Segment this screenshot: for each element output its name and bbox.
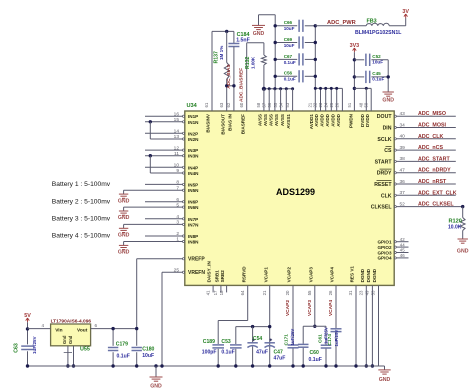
- svg-text:C174: C174: [327, 334, 333, 346]
- svg-text:AVDD: AVDD: [325, 113, 330, 126]
- svg-text:DRDY: DRDY: [377, 171, 392, 177]
- svg-text:GND: GND: [118, 198, 130, 204]
- svg-text:C52: C52: [372, 54, 381, 59]
- svg-text:BIASINV: BIASINV: [206, 113, 211, 133]
- svg-text:IN4P: IN4P: [188, 165, 198, 170]
- svg-text:IN8N: IN8N: [188, 240, 199, 245]
- svg-text:31: 31: [348, 290, 353, 295]
- svg-text:55: 55: [307, 290, 312, 295]
- svg-text:63: 63: [219, 102, 224, 107]
- svg-text:AVDD: AVDD: [330, 113, 335, 126]
- svg-text:10uF: 10uF: [284, 26, 295, 31]
- svg-text:IN5P: IN5P: [188, 182, 198, 187]
- svg-text:FB3: FB3: [367, 19, 377, 25]
- svg-text:IN1P: IN1P: [188, 114, 198, 119]
- svg-text:ADC_PWR: ADC_PWR: [327, 20, 356, 26]
- svg-text:C180: C180: [142, 346, 154, 352]
- svg-text:58: 58: [256, 102, 261, 107]
- svg-text:VREFN: VREFN: [188, 270, 205, 276]
- svg-text:ADC_nDRDY: ADC_nDRDY: [418, 168, 451, 174]
- svg-text:C63: C63: [14, 343, 20, 353]
- svg-text:Battery 1 : 5-100mv: Battery 1 : 5-100mv: [52, 181, 111, 188]
- svg-text:ADC_EXT_CLK: ADC_EXT_CLK: [418, 190, 457, 196]
- svg-text:U34: U34: [187, 103, 198, 109]
- svg-text:ADC_START: ADC_START: [418, 156, 450, 162]
- svg-text:0.1uF: 0.1uF: [221, 350, 234, 356]
- svg-text:44: 44: [400, 242, 405, 247]
- svg-text:START: START: [375, 159, 393, 165]
- svg-text:CS: CS: [384, 148, 392, 154]
- svg-text:4: 4: [41, 323, 44, 328]
- svg-text:GPIO1: GPIO1: [377, 240, 391, 245]
- svg-text:C54: C54: [253, 336, 263, 342]
- svg-text:36: 36: [400, 179, 406, 185]
- svg-text:C171: C171: [283, 334, 289, 346]
- svg-text:VCAP2: VCAP2: [285, 300, 291, 316]
- svg-text:Battery 4 : 5-100mv: Battery 4 : 5-100mv: [52, 233, 111, 240]
- svg-text:GND: GND: [118, 250, 130, 256]
- svg-text:1uF/25V: 1uF/25V: [334, 330, 339, 347]
- svg-text:BIASREF: BIASREF: [240, 114, 245, 134]
- svg-text:37: 37: [400, 190, 406, 196]
- svg-text:17: 17: [213, 290, 218, 295]
- svg-text:AVSS: AVSS: [269, 114, 274, 126]
- svg-text:IN6N: IN6N: [188, 205, 199, 210]
- svg-text:34: 34: [400, 122, 406, 128]
- svg-text:SRB1: SRB1: [215, 270, 220, 283]
- svg-text:43: 43: [400, 111, 406, 117]
- svg-text:DAISY_IN: DAISY_IN: [207, 261, 212, 283]
- svg-text:41: 41: [205, 290, 210, 295]
- svg-text:26: 26: [328, 290, 333, 295]
- svg-text:GND: GND: [118, 215, 130, 221]
- svg-text:GND: GND: [118, 233, 130, 239]
- svg-text:AVSS1: AVSS1: [286, 114, 291, 129]
- svg-text:CLKSEL: CLKSEL: [371, 205, 393, 211]
- svg-text:RESET: RESET: [374, 182, 392, 188]
- svg-text:46: 46: [400, 253, 405, 258]
- svg-text:GND: GND: [457, 249, 469, 255]
- svg-text:IN7N: IN7N: [188, 222, 199, 227]
- svg-text:0.1uF: 0.1uF: [117, 353, 130, 359]
- svg-text:Gnd: Gnd: [68, 335, 73, 344]
- svg-text:VCAP4: VCAP4: [328, 300, 334, 316]
- svg-text:10uF: 10uF: [284, 43, 295, 48]
- svg-text:SRB2: SRB2: [220, 270, 225, 283]
- svg-text:IN8P: IN8P: [188, 234, 198, 239]
- svg-text:IN4N: IN4N: [188, 171, 199, 176]
- svg-text:IN7P: IN7P: [188, 217, 198, 222]
- svg-text:10.0K: 10.0K: [448, 224, 462, 230]
- svg-text:5V: 5V: [24, 313, 31, 319]
- svg-text:C47: C47: [274, 349, 284, 355]
- svg-text:GND: GND: [382, 98, 394, 104]
- svg-text:0.1uF: 0.1uF: [309, 357, 322, 363]
- svg-text:C189: C189: [203, 339, 215, 345]
- svg-text:IN2P: IN2P: [188, 131, 198, 136]
- svg-text:ADC_BIASREF: ADC_BIASREF: [238, 68, 244, 102]
- svg-text:1uF/25V: 1uF/25V: [32, 335, 37, 354]
- svg-text:VCAP1: VCAP1: [263, 267, 268, 283]
- svg-text:BLM41PG102SN1L: BLM41PG102SN1L: [355, 30, 402, 36]
- svg-text:0.1uF: 0.1uF: [372, 77, 384, 82]
- svg-text:1M 1%: 1M 1%: [219, 46, 224, 60]
- svg-text:GPIO3: GPIO3: [377, 250, 391, 255]
- svg-text:AVSS: AVSS: [274, 114, 279, 126]
- svg-text:IN5N: IN5N: [188, 188, 199, 193]
- svg-text:AVSS: AVSS: [258, 114, 263, 126]
- svg-text:53: 53: [285, 102, 290, 107]
- svg-text:61: 61: [204, 102, 209, 107]
- svg-text:ADC_MISO: ADC_MISO: [418, 111, 446, 117]
- svg-text:DGND: DGND: [360, 268, 365, 282]
- svg-text:VCAP4: VCAP4: [330, 267, 335, 283]
- svg-text:C60: C60: [310, 350, 320, 356]
- svg-text:ADS1299: ADS1299: [276, 187, 315, 197]
- svg-text:SCLK: SCLK: [377, 137, 391, 143]
- svg-text:DVDD: DVDD: [365, 113, 370, 127]
- svg-text:52: 52: [400, 201, 406, 207]
- svg-text:DGND: DGND: [366, 268, 371, 282]
- svg-text:3V3: 3V3: [350, 43, 360, 49]
- svg-text:1uF/25V: 1uF/25V: [290, 329, 295, 346]
- svg-text:IN3N: IN3N: [188, 154, 199, 159]
- svg-text:C66: C66: [284, 20, 293, 25]
- svg-text:ADC_MOSI: ADC_MOSI: [418, 123, 446, 129]
- svg-text:Battery 2 : 5-100mv: Battery 2 : 5-100mv: [52, 198, 111, 205]
- svg-text:PWDN: PWDN: [349, 113, 354, 128]
- svg-text:6: 6: [95, 323, 98, 328]
- svg-text:Vin: Vin: [55, 328, 62, 334]
- svg-text:ADC_nRST: ADC_nRST: [418, 179, 447, 185]
- svg-text:IN2N: IN2N: [188, 137, 199, 142]
- svg-text:DGND: DGND: [372, 268, 377, 282]
- svg-text:C61: C61: [317, 334, 323, 343]
- svg-text:1.00K: 1.00K: [250, 56, 255, 69]
- svg-text:VCAP3: VCAP3: [308, 267, 313, 283]
- svg-text:AVSS: AVSS: [280, 114, 285, 126]
- svg-text:23: 23: [359, 290, 364, 295]
- svg-text:GPIO2: GPIO2: [377, 245, 391, 250]
- svg-text:64: 64: [240, 290, 245, 295]
- svg-text:DOUT: DOUT: [377, 114, 393, 120]
- svg-text:ADC_CLK: ADC_CLK: [418, 134, 443, 140]
- svg-text:42: 42: [400, 237, 405, 242]
- svg-text:ADC_BIAS: ADC_BIAS: [226, 63, 232, 88]
- svg-text:GPIO4: GPIO4: [377, 256, 391, 261]
- svg-text:100pF: 100pF: [202, 350, 217, 356]
- svg-text:47uF: 47uF: [274, 356, 286, 362]
- svg-text:IN1N: IN1N: [188, 120, 199, 125]
- svg-text:21: 21: [262, 290, 267, 295]
- svg-text:AVSS: AVSS: [263, 114, 268, 126]
- svg-text:40: 40: [400, 134, 406, 140]
- svg-text:53: 53: [371, 290, 376, 295]
- svg-text:C67: C67: [284, 54, 293, 59]
- svg-text:Gnd: Gnd: [62, 335, 67, 344]
- svg-text:39: 39: [400, 145, 406, 151]
- svg-text:U55: U55: [80, 347, 90, 353]
- svg-text:20: 20: [285, 290, 290, 295]
- svg-text:C56: C56: [284, 71, 293, 76]
- svg-text:VREFP: VREFP: [188, 257, 205, 263]
- svg-text:0.1uF: 0.1uF: [284, 77, 296, 82]
- svg-text:C53: C53: [221, 339, 231, 345]
- svg-text:IN6P: IN6P: [188, 200, 198, 205]
- svg-text:VCAP2: VCAP2: [287, 267, 292, 283]
- svg-text:45: 45: [400, 248, 405, 253]
- svg-text:BIASOUT: BIASOUT: [220, 114, 225, 135]
- svg-text:VCAP3: VCAP3: [307, 300, 313, 316]
- svg-text:3V: 3V: [402, 9, 409, 15]
- svg-text:0.1uF: 0.1uF: [284, 60, 296, 65]
- svg-text:38: 38: [400, 156, 406, 162]
- svg-text:C179: C179: [116, 342, 128, 348]
- svg-text:LT1790AIS6-4.096: LT1790AIS6-4.096: [51, 319, 92, 325]
- svg-text:AVDD: AVDD: [336, 113, 341, 126]
- svg-text:10uF: 10uF: [142, 353, 154, 359]
- svg-text:ADC_CLKSEL: ADC_CLKSEL: [418, 202, 454, 208]
- svg-text:CLK: CLK: [381, 193, 392, 199]
- svg-text:49: 49: [365, 290, 370, 295]
- svg-text:GND: GND: [253, 31, 265, 37]
- svg-text:51: 51: [347, 102, 352, 107]
- svg-text:C69: C69: [284, 37, 293, 42]
- svg-text:47uF: 47uF: [256, 349, 268, 355]
- svg-text:C45: C45: [372, 71, 381, 76]
- svg-text:GND: GND: [379, 377, 391, 383]
- svg-text:GND: GND: [150, 383, 162, 389]
- svg-text:BIAS IN: BIAS IN: [228, 113, 233, 131]
- svg-text:Vout: Vout: [77, 328, 88, 334]
- svg-text:10uF: 10uF: [372, 60, 383, 65]
- svg-text:Battery 3 : 5-100mv: Battery 3 : 5-100mv: [52, 216, 111, 223]
- svg-text:AVDD: AVDD: [319, 113, 324, 126]
- svg-text:RSRVD: RSRVD: [241, 266, 246, 283]
- svg-text:RES V1: RES V1: [350, 266, 355, 283]
- svg-text:47: 47: [400, 168, 406, 174]
- svg-text:ADC_nCS: ADC_nCS: [418, 145, 443, 151]
- svg-text:IN3P: IN3P: [188, 148, 198, 153]
- svg-text:DIN: DIN: [383, 126, 392, 132]
